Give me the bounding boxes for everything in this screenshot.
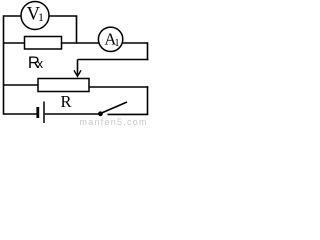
switch lever <box>100 102 127 114</box>
wire: switch right contact to right bus <box>108 113 149 115</box>
wire: rheostat right to right bus <box>89 86 148 88</box>
wire: arrow shaft down to rheostat slider <box>77 60 79 77</box>
wire: left bus to rheostat <box>4 84 39 86</box>
ammeter A1 <box>98 27 122 51</box>
svg-text:1: 1 <box>38 10 44 24</box>
resistor Rx <box>25 37 62 50</box>
wire: left bus vertical <box>3 15 5 114</box>
wire: battery to switch <box>45 113 99 115</box>
svg-text:R: R <box>61 92 72 111</box>
svg-text:manfen5.com: manfen5.com <box>80 117 148 126</box>
wire: right bus upper vertical <box>147 42 149 60</box>
rheostat R <box>38 79 89 92</box>
arrowhead onto rheostat <box>74 70 81 76</box>
wire: top-left horizontal from left bus to voltmeter <box>4 15 21 17</box>
wire: resistor Rx to ammeter <box>62 42 100 44</box>
wire: slider tap horizontal <box>78 59 149 61</box>
wire: right bus lower vertical <box>147 86 149 115</box>
svg-text:1: 1 <box>114 38 119 49</box>
voltmeter V1 <box>21 2 49 30</box>
battery negative plate (short thick) <box>36 107 39 118</box>
wire: left bus to resistor Rx <box>4 42 25 44</box>
wire: vertical from V branch down to Rx branch <box>76 16 78 44</box>
wire: ammeter right to right bus <box>122 42 147 44</box>
switch pivot dot <box>98 111 103 116</box>
wire: bottom left to battery <box>4 113 37 115</box>
battery positive plate (tall thin) <box>43 102 45 124</box>
wire: voltmeter right to corner <box>49 15 77 17</box>
svg-text:x: x <box>37 57 44 71</box>
